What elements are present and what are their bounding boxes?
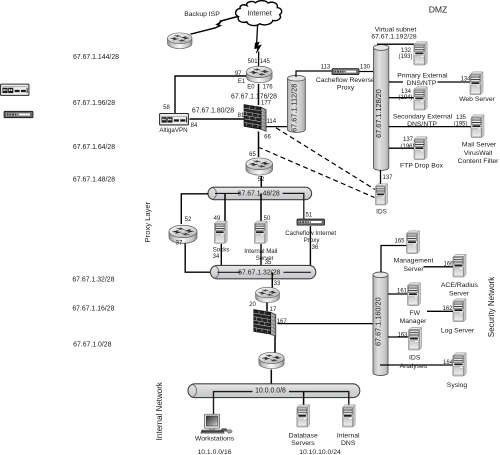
svg-text:Mail Server: Mail Server: [462, 141, 497, 148]
svg-text:67.67.1.128/20: 67.67.1.128/20: [374, 89, 383, 138]
server Log Server: [453, 299, 466, 322]
svg-text:33: 33: [274, 281, 281, 287]
server IDS: [375, 184, 387, 205]
router R3 proxy layer: [169, 225, 197, 243]
server 132 (193) primary external DNS: [414, 42, 427, 65]
svg-text:DMZ: DMZ: [429, 4, 448, 14]
server Internal DNS: [342, 405, 355, 427]
wire security cylinder to Syslog: [380, 364, 453, 366]
dashed line firewall wire to IDS (lower): [258, 147, 375, 198]
server Internal Mail: [254, 221, 267, 243]
svg-text:137: 137: [403, 137, 414, 143]
wire security cylinder to IDS Analyses: [388, 336, 409, 338]
svg-text:Server: Server: [449, 290, 470, 297]
svg-text:67.67.1.80/28: 67.67.1.80/28: [192, 107, 234, 114]
svg-text:ACE/Radius: ACE/Radius: [441, 282, 479, 289]
svg-text:Manager: Manager: [400, 318, 428, 325]
svg-text:Backup ISP: Backup ISP: [184, 11, 220, 18]
svg-text:IDS: IDS: [409, 355, 421, 362]
wire router R5 to pill 10.0.0.0/8: [270, 370, 272, 389]
svg-text:51: 51: [305, 212, 312, 218]
svg-text:36: 36: [312, 245, 319, 251]
svg-text:Internet: Internet: [247, 8, 271, 17]
label Secondary External DNS/NTP: [393, 113, 453, 127]
svg-text:501: 501: [248, 59, 259, 65]
cylinder subnet 67.67.1.160/20 security: [373, 272, 388, 376]
Internet cloud: [236, 1, 282, 26]
router R5: [259, 352, 284, 368]
firewall FW1: [244, 105, 266, 132]
wire firewall FW2 to security cylinder: [278, 323, 374, 325]
svg-text:IDS: IDS: [376, 208, 387, 215]
server Mail Server VirusWall: [471, 115, 484, 138]
wire firewall FW2 to router R5: [274, 337, 276, 353]
svg-text:Syslog: Syslog: [447, 382, 468, 389]
label Cacheflow Reverse Proxy: [316, 77, 375, 91]
dashed line firewall to IDS (upper): [276, 128, 375, 190]
server ACE/Radius: [453, 254, 466, 277]
svg-text:164: 164: [443, 360, 454, 366]
proxy appliance Cacheflow Internet Proxy: [297, 219, 325, 225]
router R2: [246, 158, 273, 175]
svg-text:97: 97: [235, 71, 242, 77]
svg-text:Servers: Servers: [291, 440, 315, 447]
wire firewall FW1 to router R2: [258, 132, 260, 158]
svg-text:FTP Drop Box: FTP Drop Box: [400, 162, 444, 169]
svg-text:FW: FW: [410, 310, 421, 317]
wire pill2 to router R4: [271, 273, 273, 289]
svg-text:10.10.10.0/24: 10.10.10.0/24: [299, 449, 341, 455]
svg-text:Virtual subnet: Virtual subnet: [375, 26, 417, 33]
svg-text:(195): (195): [453, 121, 467, 127]
svg-text:DNS/NTP: DNS/NTP: [407, 80, 437, 87]
svg-text:161: 161: [397, 289, 408, 295]
cylinder subnet 67.67.1.112/28: [288, 75, 306, 132]
svg-text:Proxy: Proxy: [304, 237, 321, 244]
wire AltigaVPN to firewall FW1: [190, 118, 245, 120]
wire E1 from edge router left then down to AltigaVPN: [175, 76, 246, 113]
label IDS Analyses: [400, 355, 428, 370]
wire Cacheflow Reverse Proxy to cylinder 128/20: [360, 71, 375, 73]
svg-text:67.67.1.32/28: 67.67.1.32/28: [72, 276, 114, 283]
wire pill3 to Database Servers: [303, 392, 305, 406]
svg-text:166: 166: [443, 262, 454, 268]
svg-text:Workstations: Workstations: [195, 435, 235, 442]
server Management: [407, 231, 420, 254]
wire Internal Mail to pill2: [260, 244, 262, 272]
server Syslog: [453, 353, 466, 376]
router U1 edge router 501/145: [246, 66, 272, 83]
svg-text:67.67.1.64/28: 67.67.1.64/28: [73, 144, 115, 151]
svg-text:67.67.1.0/28: 67.67.1.0/28: [73, 342, 111, 349]
svg-text:10.1.0.0/16: 10.1.0.0/16: [197, 449, 231, 455]
svg-text:84: 84: [191, 123, 198, 129]
server Web Server: [470, 72, 483, 95]
router R4: [256, 287, 280, 302]
wire Socks to pill2: [220, 244, 222, 272]
svg-text:130: 130: [360, 65, 371, 71]
svg-text:Server: Server: [403, 266, 424, 273]
svg-text:Database: Database: [289, 432, 318, 439]
legend hub device top-left: [4, 111, 33, 117]
svg-text:Primary External: Primary External: [397, 72, 448, 79]
svg-text:E0: E0: [247, 85, 255, 91]
label Mail Server VirusWall Content Filter: [458, 141, 500, 165]
svg-text:114: 114: [267, 119, 277, 125]
wire cylinder 128/20 to Mail Server: [389, 126, 471, 128]
svg-text:Proxy Layer: Proxy Layer: [143, 201, 152, 242]
bus pill 67.67.1.48/28: [208, 187, 312, 218]
svg-text:67.67.1.48/28: 67.67.1.48/28: [73, 176, 115, 183]
wire Internet cloud to edge router with lightning bolt: [255, 25, 262, 66]
wire cylinder 128/20 bottom to IDS: [380, 170, 382, 185]
legend switch device top-left: [1, 84, 29, 95]
svg-text:135: 135: [456, 115, 467, 121]
svg-text:34: 34: [213, 254, 220, 260]
svg-text:AltigaVPN: AltigaVPN: [159, 127, 187, 134]
label ACE/Radius Server: [441, 282, 479, 298]
svg-text:Web Server: Web Server: [459, 96, 495, 103]
svg-text:20: 20: [249, 302, 256, 308]
svg-text:(194): (194): [398, 95, 412, 101]
svg-text:VirusWall: VirusWall: [464, 150, 493, 157]
workstation Workstations: [201, 414, 233, 434]
label Internal DNS: [337, 432, 360, 447]
wire firewall FW1 to cylinder 67.67.1.112/28: [267, 126, 289, 128]
wire pill1 to Socks server: [224, 193, 226, 221]
svg-text:134: 134: [460, 76, 471, 82]
wire pill1 to router R3: [181, 194, 208, 224]
svg-text:10.0.0.0/8: 10.0.0.0/8: [255, 388, 286, 395]
svg-text:163: 163: [397, 333, 408, 339]
svg-text:67.67.1.96/28: 67.67.1.96/28: [73, 100, 115, 107]
svg-text:67.67.1.48/28: 67.67.1.48/28: [238, 191, 280, 198]
svg-text:Cacheflow Reverse: Cacheflow Reverse: [316, 77, 375, 84]
svg-text:37: 37: [176, 241, 183, 247]
svg-text:176: 176: [263, 85, 274, 91]
proxy appliance Cacheflow Reverse Proxy: [332, 69, 359, 75]
svg-text:67.67.1.32/28: 67.67.1.32/28: [238, 270, 280, 277]
wire cylinder 112/28 up and right to Cacheflow Reverse Proxy: [296, 71, 332, 77]
svg-text:Content Filter: Content Filter: [458, 158, 500, 165]
wire FW Manager to Log Server: [427, 310, 453, 312]
wire pill1 to Internal Mail server: [260, 193, 262, 221]
wire edge router to firewall FW1: [258, 84, 260, 105]
wire cylinder 128/20 to server 134: [389, 97, 414, 99]
wire security cylinder up to Management Server: [381, 246, 407, 273]
label Internal Mail Server: [244, 248, 277, 262]
wire router R4 to firewall FW2: [266, 303, 268, 312]
svg-text:67.67.1.112/28: 67.67.1.112/28: [289, 84, 298, 132]
svg-text:(196): (196): [400, 144, 414, 150]
cylinder subnet 67.67.1.128/20: [374, 45, 389, 171]
wire router R2 to pill 67.67.1.48/28: [260, 176, 262, 193]
server Database Servers: [297, 405, 310, 427]
svg-text:67.67.1.144/28: 67.67.1.144/28: [73, 54, 119, 61]
wire backup ISP to Internet cloud with lightning bolt: [191, 16, 240, 34]
server Socks: [214, 221, 227, 243]
label Management Server: [394, 257, 434, 273]
svg-text:Management: Management: [394, 257, 434, 264]
label Database Servers: [289, 432, 318, 447]
server IDS Analyses: [409, 327, 422, 350]
svg-text:52: 52: [185, 217, 192, 223]
bus pill 67.67.1.32/28: [210, 265, 315, 278]
svg-text:137: 137: [382, 175, 393, 181]
wire cylinder 128/20 to FTP Drop Box: [389, 147, 414, 149]
svg-text:67.67.1.192/28: 67.67.1.192/28: [371, 34, 417, 41]
svg-text:Secondary External: Secondary External: [393, 113, 453, 120]
svg-text:Log Server: Log Server: [441, 328, 475, 335]
label Primary External DNS/NTP: [397, 72, 448, 86]
VPN concentrator AltigaVPN: [160, 113, 189, 124]
svg-text:Internal: Internal: [337, 432, 360, 439]
firewall FW2: [254, 310, 276, 337]
svg-text:Proxy: Proxy: [337, 84, 355, 91]
svg-text:Internal Network: Internal Network: [155, 381, 164, 440]
server 137 (196) FTP drop box: [414, 137, 427, 160]
svg-text:66: 66: [264, 135, 271, 141]
svg-text:65: 65: [249, 152, 256, 158]
label FW Manager: [400, 310, 428, 325]
svg-text:177: 177: [261, 100, 272, 106]
svg-text:162: 162: [442, 306, 453, 312]
label Cacheflow Internet Proxy: [285, 230, 336, 244]
wire security cylinder to FW Manager: [388, 293, 408, 295]
svg-text:Security Network: Security Network: [487, 276, 496, 337]
wire Cacheflow Internet Proxy to pill2: [309, 226, 311, 272]
wire cylinder 128/20 to Web Server: [389, 81, 470, 83]
wire Management Server to ACE/Radius: [424, 266, 454, 268]
server 134 (194) secondary external DNS: [414, 87, 427, 110]
svg-text:E1: E1: [238, 79, 246, 85]
router backup ISP: [168, 33, 193, 49]
svg-text:67.67.1.160/20: 67.67.1.160/20: [374, 297, 383, 346]
svg-text:(193): (193): [398, 54, 412, 60]
server FW Manager: [408, 283, 421, 306]
svg-text:Analyses: Analyses: [400, 363, 428, 370]
svg-text:113: 113: [321, 65, 331, 71]
bus pill 10.0.0.0/8: [188, 384, 360, 415]
svg-text:DNS: DNS: [341, 440, 356, 447]
wire router R3 to pill2: [185, 244, 217, 273]
svg-text:145: 145: [260, 59, 271, 65]
label Virtual subnet 67.67.1.192/28: [371, 26, 417, 40]
svg-text:58: 58: [163, 105, 170, 111]
wire cylinder 128/20 top to server 132: [377, 43, 414, 45]
svg-text:165: 165: [394, 239, 405, 245]
svg-text:67.67.1.16/28: 67.67.1.16/28: [72, 305, 114, 312]
